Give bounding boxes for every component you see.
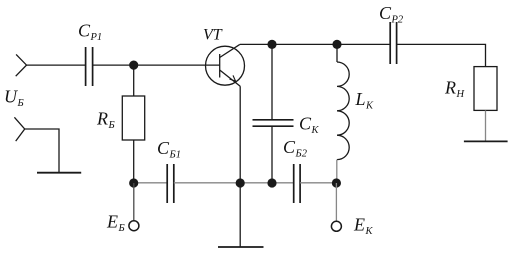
node A (base junction dot) [129,61,138,70]
node bottom rail left [129,178,138,187]
node top rail C_K branch [267,40,276,49]
bottom rail middle segment [174,182,294,184]
wire input to C_P1 [27,64,86,66]
ground input [37,172,81,174]
transistor VT [206,44,245,86]
bottom rail left segment [134,182,167,184]
wire C_P2 to R_H [397,44,486,66]
wire to terminal E_K [335,183,337,221]
wire emitter down [239,86,241,183]
wire junction to R_B top [133,65,135,96]
node top rail L_K branch [332,40,341,49]
node bottom rail emitter [236,178,245,187]
capacitor C_P1 [86,47,93,86]
node bottom rail C_K [267,178,276,187]
input terminal top chevron [16,54,27,76]
ground center [218,246,264,248]
wire bottom chevron to ground [25,129,59,173]
capacitor C_B2 [294,164,300,203]
inductor L_K [337,44,349,183]
terminal E_B circle [129,221,139,231]
wire R_B bottom to bottom rail [133,140,135,183]
wire to terminal E_B [133,183,135,221]
wire C_K branch lower [271,126,273,183]
node bottom rail right [332,178,341,187]
bottom rail right segment [300,182,336,184]
capacitor C_K [253,120,294,126]
capacitor C_P2 [390,22,396,64]
wire emitter node to ground [239,183,241,247]
resistor R_B [122,96,144,140]
terminal E_K circle [331,221,341,231]
ground below R_H [464,140,508,142]
resistor R_H [474,67,497,111]
wire C_P1 to transistor base [93,64,220,66]
capacitor C_B1 [167,164,174,203]
wire top rail collector to C_P2 [240,43,390,45]
svg-text:VT: VT [203,27,223,44]
input terminal bottom chevron [14,117,24,141]
wire C_K branch upper [271,44,273,119]
wire R_H bottom to ground [485,110,487,141]
